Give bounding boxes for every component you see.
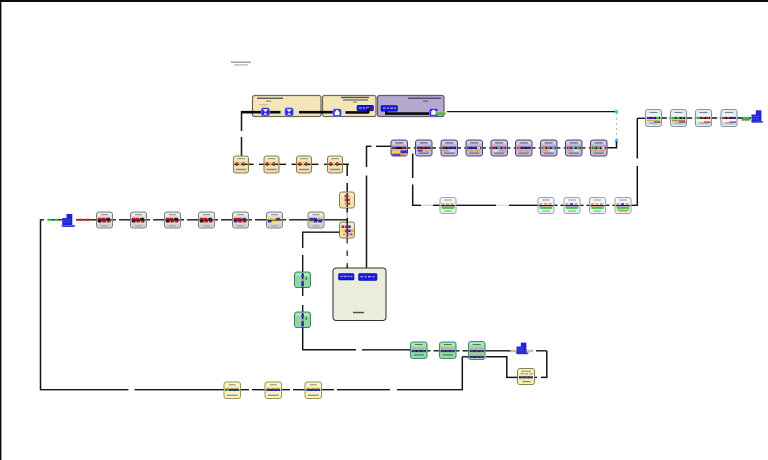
station E2 (exit conveyor station) bbox=[671, 110, 687, 127]
conveyor T2 (teal station) bbox=[440, 342, 457, 359]
conveyor T1 (teal station) bbox=[411, 342, 428, 359]
station P3 (purple machine) bbox=[441, 140, 458, 156]
wire: teal row line bbox=[411, 350, 547, 352]
wire: drop from teal lane to bottom line bbox=[461, 357, 463, 391]
buffer B3 (tan row) bbox=[297, 156, 312, 173]
wire: buffer row line bbox=[233, 163, 349, 165]
handle: cyan mid bbox=[615, 139, 618, 142]
wire: selected connector dashed vertical bbox=[616, 113, 618, 140]
station W5 (pale conveyor station) bbox=[615, 198, 631, 214]
wire: main gray row line bbox=[76, 219, 348, 221]
frame panel 2 (tan line section) bbox=[323, 96, 377, 117]
wire: thick conveyor P1 to P2 bbox=[299, 111, 334, 114]
wire: thick conveyor between stations P1 bbox=[269, 111, 281, 114]
label: blue button assembly 1 bbox=[339, 274, 355, 281]
wire: purple row line bbox=[391, 147, 608, 149]
wire: bypass row line mid bbox=[456, 204, 497, 206]
label: blue button panel3 bbox=[381, 106, 398, 112]
wire: elbow into purple row bbox=[608, 142, 617, 148]
station W3 (pale conveyor station) bbox=[564, 198, 580, 214]
wire: light conveyor gap after icon3 bbox=[341, 111, 346, 113]
buffer B2 (tan row) bbox=[264, 156, 279, 173]
wire: lower lane into bottom loop bbox=[462, 356, 468, 358]
wire: purple row feed elbow from left bbox=[367, 145, 372, 147]
station M7 (gray machine) bbox=[308, 212, 324, 228]
buffer B5 (vertical tan box upper) bbox=[340, 192, 355, 208]
icon: station U3 panel2 (blue container station) bbox=[333, 109, 341, 117]
wire: B6 to green chain bbox=[303, 232, 340, 248]
drain icon (blue factory mid) bbox=[511, 343, 533, 355]
station P5 (purple machine) bbox=[491, 140, 508, 156]
station P8 (purple machine) bbox=[566, 140, 583, 156]
wire: vertical to assembly station bbox=[366, 146, 368, 167]
wire: red part dashes after source bbox=[78, 219, 82, 221]
buffer R1 (bottom tan station) bbox=[224, 382, 241, 399]
buffer R2 (bottom tan station) bbox=[265, 382, 282, 399]
wire: exit row line bbox=[646, 117, 751, 119]
station E4 (exit conveyor station) bbox=[721, 110, 737, 127]
station P9 (purple machine) bbox=[591, 140, 608, 156]
station E3 (exit conveyor station) bbox=[696, 110, 712, 127]
wire: light conveyor gap after icon2 bbox=[293, 111, 299, 113]
frame top border bbox=[0, 0, 768, 2]
frame panel 1 (tan line section) bbox=[253, 96, 322, 117]
wire: buffer row elbow down bbox=[343, 164, 347, 192]
wire: bypass row line left bbox=[412, 204, 421, 206]
green conveyor box G1 bbox=[295, 272, 311, 288]
wire: thick conveyor P3 bbox=[385, 112, 430, 115]
wire: main line from loop to source bbox=[41, 219, 63, 221]
buffer B4 (tan row) bbox=[328, 156, 343, 173]
wire: bypass row up to exit row bbox=[636, 118, 638, 158]
station P6 (purple machine) bbox=[516, 140, 533, 156]
icon: station U2 panel1-b (blue hourglass station) bbox=[285, 108, 293, 116]
station P4 (purple machine) bbox=[466, 140, 483, 156]
frame panel 3 (purple line section) bbox=[378, 96, 445, 117]
source icon (blue factory) bbox=[61, 214, 76, 227]
wire: drop from purple row to bypass row bbox=[412, 154, 414, 179]
wire: thick conveyor segment into panel1 bbox=[241, 111, 261, 114]
wire: light conveyor gap P1 bbox=[281, 111, 286, 113]
station M3 (gray machine) bbox=[165, 212, 181, 228]
wire: P3 vertical stub from blue label bbox=[385, 111, 388, 115]
frame left border bbox=[0, 0, 1, 460]
conveyor T3 (teal station) bbox=[469, 342, 486, 360]
station E1 (exit conveyor station) bbox=[646, 110, 662, 127]
comment annotation text bbox=[231, 62, 251, 66]
wire: rework loop right side bbox=[541, 351, 547, 378]
wire: green chain down and right to teal row bbox=[303, 328, 356, 350]
station P1 (purple machine) bbox=[391, 140, 408, 156]
station W4 (pale conveyor station) bbox=[590, 198, 606, 214]
station W1 (pale conveyor station) bbox=[440, 198, 456, 214]
station M1 (gray machine) bbox=[97, 212, 113, 228]
station M5 (gray machine) bbox=[233, 212, 249, 228]
assembly buffer B6 (vertical tan box lower, multicolour) bbox=[340, 222, 355, 238]
wire: thick conveyor P2 bbox=[346, 111, 368, 114]
label: blue button assembly 2 bbox=[359, 274, 378, 281]
wire: between vertical buffers bbox=[346, 208, 348, 213]
station P2 (purple machine) bbox=[416, 140, 433, 156]
station W2 (pale conveyor station) bbox=[538, 198, 554, 214]
icon: station U4 panel3 (blue container station) bbox=[430, 109, 438, 117]
handle: cyan top bbox=[615, 110, 618, 113]
station P1 queue bands bbox=[392, 150, 407, 156]
wire: bypass row line right bbox=[553, 204, 637, 206]
wire: between green boxes bbox=[302, 288, 304, 297]
wire: P2 vertical stub to blue label bbox=[367, 107, 370, 113]
station P7 (purple machine) bbox=[541, 140, 558, 156]
wire: rework loop left side bbox=[486, 357, 518, 378]
label: blue button panel2 bbox=[357, 105, 374, 113]
station M6 (gray machine) bbox=[267, 212, 283, 228]
wire: bottom loop line bbox=[41, 389, 463, 391]
buffer B1 (tan row) bbox=[234, 156, 249, 173]
wire: left loop vertical bbox=[40, 219, 42, 390]
buffer R3 (bottom tan station) bbox=[305, 382, 322, 399]
assembly station (large pale panel) bbox=[333, 268, 386, 321]
icon: station U1 panel1-a (blue hourglass station) bbox=[261, 108, 269, 116]
rework buffer (tan box in loop) bbox=[518, 369, 535, 385]
wire: green flow dash exiting panel3 bbox=[436, 111, 446, 112]
station M2 (gray machine) bbox=[131, 212, 147, 228]
drain icon (blue factory top right) bbox=[751, 110, 764, 123]
wire: green dash before drain bbox=[743, 117, 750, 119]
wire: panel1 down to buffer row bbox=[241, 111, 243, 131]
green conveyor box G2 bbox=[295, 312, 311, 328]
station M4 (gray machine) bbox=[199, 212, 215, 228]
wire: dashed drop to assembly station bbox=[346, 238, 348, 270]
wire: green arrival dashes bbox=[48, 219, 52, 221]
wire: long connector panel3 to elbow bbox=[447, 111, 617, 113]
